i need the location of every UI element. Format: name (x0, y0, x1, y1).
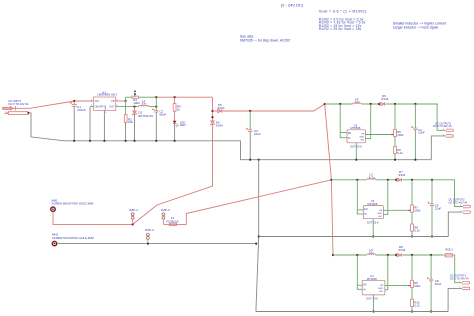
wire rail to connector J2 (437, 104, 445, 130)
wire C1 to ground (73, 106, 75, 141)
wire U3 FB to divider (383, 209, 410, 211)
svg-text:22uF: 22uF (435, 207, 442, 211)
svg-text:MT3608: MT3608 (351, 126, 361, 130)
capacitor C8 20uF output (427, 255, 442, 286)
resistor R7 100k divider upper (411, 180, 421, 213)
LED D3 power indicator (173, 111, 186, 127)
connector J3 DC output 2 (449, 198, 471, 213)
svg-text:JMP-1: JMP-1 (129, 208, 138, 212)
wire U1 ON/OFF pin to ground (90, 106, 94, 108)
svg-text:VIN: VIN (95, 100, 99, 103)
svg-text:100k: 100k (414, 209, 421, 213)
svg-text:GND: GND (359, 136, 364, 138)
connector J1 DC input barrel jack (3, 99, 29, 114)
wire C3 to ground (249, 132, 251, 160)
svg-text:SS34: SS34 (398, 248, 405, 252)
svg-text:100k: 100k (133, 101, 140, 105)
inductor L3 4.7u (367, 173, 376, 180)
wire U4 FB to divider (385, 285, 411, 287)
wire block1 rail (325, 103, 353, 105)
svg-text:JMP-2: JMP-2 (161, 208, 170, 212)
svg-text:22u: 22u (355, 100, 360, 104)
svg-text:IN: IN (363, 289, 366, 291)
inductor L2 22u (353, 97, 362, 104)
svg-text:DC 6 TO 40V 4A: DC 6 TO 40V 4A (9, 102, 29, 106)
wire U1 GND pin to ground (103, 111, 105, 141)
svg-text:FB: FB (111, 100, 114, 103)
mounting hole MH2 screw terminal (52, 233, 94, 246)
power flag Vout (134, 91, 136, 98)
wire D2 to ground (134, 114, 136, 141)
svg-text:IN: IN (364, 214, 367, 216)
svg-text:Larger inductor --> less rippl: Larger inductor --> less ripple (393, 25, 439, 29)
ground bus main (64, 141, 431, 160)
svg-text:22u: 22u (369, 251, 374, 255)
svg-text:LM2596S ADJ: LM2596S ADJ (97, 93, 117, 97)
diode D8 SS34 (395, 245, 406, 257)
svg-text:MT3608: MT3608 (368, 202, 378, 206)
wire C8 to ground (430, 281, 432, 312)
svg-text:DC 6 TO 40V 4A: DC 6 TO 40V 4A (449, 201, 468, 204)
wire U4 SW to rail (385, 255, 388, 290)
wire MH2 to ground (57, 243, 256, 245)
svg-text:ON/OFF: ON/OFF (95, 106, 105, 109)
wire R1 to Vout node (139, 96, 157, 98)
wire R10 to ground (411, 307, 413, 312)
jumper JP3 (145, 228, 154, 245)
wire ground drop to lower sections (256, 160, 259, 312)
svg-text:10k: 10k (128, 120, 133, 124)
wire block2 rail (331, 179, 366, 181)
mounting hole MH1 screw terminal (51, 198, 94, 211)
svg-text:100k: 100k (414, 284, 421, 288)
wire J3 pin2 to ground (448, 212, 462, 236)
svg-text:1: 1 (91, 99, 92, 101)
wire U3 SW to rail (383, 180, 387, 215)
inductor L4 22u (367, 248, 376, 255)
svg-text:(2 - 24V DC): (2 - 24V DC) (281, 3, 304, 8)
svg-text:5.1k: 5.1k (414, 304, 420, 308)
svg-text:BZT52C15: BZT52C15 (138, 114, 153, 118)
resistor R10 5.1k divider lower (411, 288, 421, 308)
wire U2 GND to ground (355, 143, 357, 160)
node VIN junction (73, 100, 75, 102)
svg-text:GND: GND (378, 288, 383, 290)
connector J4 DC output 3 (450, 275, 470, 290)
wire D5 to blocks feed (222, 104, 325, 111)
wire R8 to ground (411, 231, 413, 236)
resistor R2 10k feedback lower (124, 115, 133, 125)
svg-text:5.1k: 5.1k (397, 151, 403, 155)
jumper JP2 (161, 208, 170, 225)
op-amp U2 MT3608 boost (347, 123, 366, 148)
wire J4 pin2 to ground (448, 288, 461, 311)
resistor R1 100k feedback upper (132, 96, 140, 105)
wire R2 to ground (125, 122, 127, 141)
wire Vout bus (156, 96, 212, 98)
wire rail to connector J3 (455, 180, 463, 207)
wire J1 pin2 to ground (28, 113, 64, 141)
resistor R6 5.1k divider lower (394, 137, 404, 155)
capacitor C6 22uF output (428, 180, 442, 211)
wire Vout bus corner down (212, 97, 214, 121)
svg-text:GND: GND (105, 105, 107, 110)
wire C4 to ground (414, 130, 416, 160)
capacitor C1 470uF input (70, 101, 86, 112)
svg-text:SS34: SS34 (381, 97, 388, 101)
svg-text:1k: 1k (177, 108, 181, 112)
capacitor C4 10uF output (411, 104, 425, 135)
wire J2 pin2 to ground (431, 136, 445, 160)
svg-text:20uF: 20uF (435, 282, 442, 286)
svg-text:SS34: SS34 (398, 173, 405, 177)
resistor R8 5.1k divider lower (411, 212, 421, 232)
ground rail block3 (256, 311, 448, 313)
svg-text:SM7035 --- for step down, AC/D: SM7035 --- for step down, AC/DC (240, 38, 291, 42)
wire MH1 to JP1 node (53, 212, 133, 225)
svg-text:SS34: SS34 (217, 106, 224, 110)
svg-text:SCREW MOUNTING HOLE 3MM: SCREW MOUNTING HOLE 3MM (52, 202, 94, 206)
svg-text:GND: GND (377, 213, 382, 215)
op-amp U1 LM2596S ADJ buck regulator (91, 90, 118, 114)
resistor R4 1k LED series (173, 97, 181, 111)
wire C6 to ground (431, 206, 433, 237)
wire block3 left pins (357, 255, 362, 289)
wire D4 down to diagonal (133, 124, 213, 224)
resistor R5 100k divider upper (394, 104, 404, 137)
svg-text:LED: LED (180, 123, 186, 127)
jumper JP1 (129, 208, 138, 225)
svg-text:EN: EN (363, 284, 367, 286)
wire LED to ground (174, 124, 176, 141)
wire U2 SW to rail (366, 104, 371, 138)
svg-text:R1/R2 = 29 for Vout = 18v: R1/R2 = 29 for Vout = 18v (319, 27, 362, 31)
svg-text:22uF: 22uF (254, 132, 261, 136)
capacitor C3 22uF feed bypass (246, 111, 261, 136)
svg-text:JMP-3: JMP-3 (145, 228, 154, 232)
svg-text:FUSE/2A: FUSE/2A (167, 220, 179, 224)
op-amp U3 MT3608 boost (363, 199, 383, 224)
wire C2 to ground (155, 112, 157, 141)
wire Vout riser (155, 97, 157, 106)
diode D2 BZT52C15 catch (132, 107, 153, 118)
op-amp U4 MT3608 boost (362, 274, 385, 301)
svg-text:4.7u: 4.7u (369, 175, 375, 179)
svg-text:RXE-1: RXE-1 (445, 247, 453, 251)
wire FB node riser (125, 97, 127, 115)
svg-text:DC 6 TO 40V 4A: DC 6 TO 40V 4A (433, 125, 452, 128)
fuse F1 (163, 216, 178, 225)
wire F1 to block feed diagonal (177, 180, 332, 225)
connector J2 DC output 1 (433, 123, 453, 138)
diode D4 SS34 to screw terminal (210, 120, 223, 127)
wire U2 FB to divider (366, 134, 394, 136)
svg-text:68uF: 68uF (159, 113, 166, 117)
svg-text:100k: 100k (397, 133, 404, 137)
svg-text:EN: EN (348, 133, 352, 135)
svg-text:10uF: 10uF (418, 131, 425, 135)
wire block2 left pins (357, 180, 363, 214)
wire R6 to ground (394, 154, 396, 160)
wire U4 GND to ground (373, 295, 375, 312)
wire U3 GND to ground (372, 219, 374, 237)
wire block1 left pins (340, 104, 347, 138)
svg-text:3: 3 (105, 112, 106, 114)
svg-text:OUT: OUT (109, 106, 115, 109)
svg-text:MT3608: MT3608 (367, 277, 377, 281)
svg-text:470uF: 470uF (77, 108, 86, 112)
inductor L1 33u (139, 99, 149, 107)
resistor R9 100k divider upper (411, 255, 421, 288)
wire FB node to R1 (126, 96, 132, 98)
wire block feed tilted (325, 104, 333, 255)
diode D6 SS34 (378, 94, 389, 106)
svg-text:SCREW MOUNTING HOLE 3MM: SCREW MOUNTING HOLE 3MM (52, 236, 94, 240)
svg-text:EN: EN (364, 209, 368, 211)
svg-text:IN: IN (348, 138, 351, 140)
wire L1 to Vout node (149, 106, 157, 108)
fuse PTC1 (443, 247, 454, 257)
wire PTC to connector J4 (454, 255, 462, 283)
svg-text:5.1k: 5.1k (414, 228, 420, 232)
capacitor C2 68uF output (152, 107, 166, 117)
wire block3 rail (333, 254, 367, 256)
wire U1 FB pin to divider node (116, 100, 126, 102)
svg-text:Vout = 0.6 * (1 + R1/R2): Vout = 0.6 * (1 + R1/R2) (319, 8, 367, 13)
diode D5 SS34 feed (213, 103, 225, 113)
svg-text:DC 6 TO 40V 4A: DC 6 TO 40V 4A (450, 278, 469, 281)
ground rail block2 (259, 236, 449, 238)
svg-text:SS34: SS34 (216, 123, 223, 127)
diode D7 SS34 (395, 170, 406, 182)
svg-text:33u: 33u (141, 102, 146, 106)
wire J1 pin1 to VIN node (12, 101, 93, 108)
wire U1 OUT pin to inductor (116, 106, 139, 108)
svg-text:SOT 23-6: SOT 23-6 (366, 297, 378, 301)
